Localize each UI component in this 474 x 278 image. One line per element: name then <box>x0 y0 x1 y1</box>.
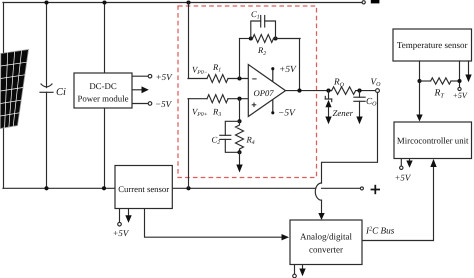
svg-text:−5V: −5V <box>278 108 296 118</box>
ground zener (arrow) <box>325 117 331 125</box>
ground microcontroller (arrow) <box>406 159 412 168</box>
wire R1 to op-amp inverting input <box>228 78 248 80</box>
junction dots top bus <box>44 0 190 190</box>
wire VO to ADC (down, left, hop, arrow) <box>322 93 378 184</box>
wire RT left stub <box>420 80 431 82</box>
node C2/R4 bottom junction <box>237 150 241 154</box>
node R2 left junction <box>249 36 253 40</box>
ground current sensor (arrow) <box>125 209 131 223</box>
solar panel PV module <box>0 50 28 129</box>
wire Vp0- to R1 <box>188 78 207 80</box>
wire feedback to R2 left <box>240 38 253 40</box>
power +5V pin microcontroller <box>400 159 403 170</box>
node zener junction <box>326 89 330 93</box>
svg-text:+5V: +5V <box>279 65 297 75</box>
svg-text:Power module: Power module <box>77 93 128 103</box>
node R2 right junction <box>273 36 277 40</box>
wire DC-DC top branch <box>104 3 106 74</box>
wire current sensor to ADC <box>145 209 282 238</box>
wire feedback down to output node <box>299 39 301 91</box>
wire temp sensor +5V pin <box>459 61 461 87</box>
node top bus end terminal <box>362 1 365 4</box>
wire to C2 top <box>225 121 239 135</box>
capacitor C2 <box>220 135 231 139</box>
node inverting input junction <box>237 76 241 80</box>
power +5V pin op-amp <box>271 67 274 82</box>
microcontroller box <box>394 122 472 159</box>
arrow DCDC power output <box>142 86 149 93</box>
svg-text:Current sensor: Current sensor <box>118 184 169 194</box>
wire DCDC -5V output <box>132 103 148 105</box>
resistor R4 <box>236 121 244 152</box>
node bottom bus end terminal <box>360 187 363 190</box>
ground temp sensor (arrow) <box>465 61 471 82</box>
wire capacitor Ci branch top <box>46 3 48 88</box>
terminal minus sign <box>371 0 380 3</box>
diode D1 zener <box>325 91 331 117</box>
svg-text:+5V: +5V <box>113 228 130 238</box>
power -5V pin op-amp <box>271 100 274 115</box>
node VO terminal <box>376 89 380 93</box>
wire temp sensor signal down <box>419 61 421 115</box>
resistor R1 <box>207 75 228 83</box>
node non-inverting input junction <box>237 97 241 101</box>
svg-text:−5V: −5V <box>155 99 173 109</box>
pin plus mark <box>252 103 257 108</box>
svg-text:Analog/digital: Analog/digital <box>300 231 352 241</box>
wire Vp0+ to R3 <box>188 98 207 100</box>
arrow into microcontroller bottom <box>430 159 436 167</box>
node RT right junction <box>457 79 461 83</box>
resistor R3 <box>207 95 228 103</box>
wire hop over bottom bus <box>315 183 321 200</box>
node junction Ci bottom <box>44 186 48 190</box>
wire op-amp output <box>286 90 332 92</box>
node output feedback junction <box>297 89 301 93</box>
svg-text:+5V: +5V <box>156 72 174 82</box>
wire capacitor Ci branch bottom <box>46 92 48 188</box>
wire feedback vertical from inverting input <box>239 39 241 79</box>
resistor R2 <box>253 35 274 43</box>
node junction Ci top <box>44 0 48 4</box>
ADC box <box>290 220 362 265</box>
wire Vp0- tap vertical <box>188 3 190 79</box>
svg-text:Ci: Ci <box>56 87 66 98</box>
current sensor box <box>115 166 172 209</box>
amplifier red dashed enclosure <box>178 6 317 178</box>
svg-text:Temperature sensor: Temperature sensor <box>397 40 468 50</box>
node DCDC +5V terminal <box>148 74 152 78</box>
label plus terminal <box>371 185 380 194</box>
arrow into ADC top <box>318 213 324 220</box>
arrow into microcontroller top <box>416 115 422 122</box>
wire DCDC +5V output <box>132 75 148 77</box>
wire bottom bus after hop <box>322 187 361 189</box>
wire DCDC power arrow output <box>132 89 142 91</box>
arrow into ADC left <box>282 234 290 240</box>
svg-text:+5V: +5V <box>395 172 412 182</box>
power +5V terminal RT <box>458 87 461 90</box>
wire RT right stub <box>451 80 460 82</box>
wire Vp0+ tap vertical <box>188 99 190 189</box>
wire R3 to op-amp non-inverting input <box>228 98 248 100</box>
DC-DC power module box <box>74 73 132 108</box>
node CO junction <box>357 89 361 93</box>
wire bottom bus left <box>3 187 115 189</box>
wire bottom bus right of current sensor <box>172 187 315 189</box>
power +5V pin current sensor <box>118 209 122 227</box>
wire C2 bottom <box>225 139 239 152</box>
temperature sensor box <box>393 29 472 61</box>
node DCDC -5V terminal <box>148 102 152 106</box>
node junction Vp0- tap <box>186 0 190 4</box>
pin minus mark <box>252 78 256 80</box>
capacitor CO <box>354 91 365 117</box>
node C2/R4 top junction <box>237 119 241 123</box>
wire C2 R4 drop <box>239 99 241 122</box>
svg-text:converter: converter <box>309 245 343 255</box>
svg-text:Mircocontroller unit: Mircocontroller unit <box>397 135 469 145</box>
wire ADC to microcontroller (I2C) <box>362 167 434 241</box>
svg-text:DC-DC: DC-DC <box>89 81 117 91</box>
wire hop to ADC arrow <box>321 200 323 213</box>
svg-text:+5V: +5V <box>453 91 468 100</box>
wire left vertical (panel branch) <box>3 3 5 189</box>
svg-text:Zener: Zener <box>333 108 354 118</box>
wire C1 left riser <box>251 21 261 39</box>
power +5V pin ADC <box>293 265 297 278</box>
resistor RT <box>431 78 451 84</box>
svg-text:OP07: OP07 <box>254 88 275 98</box>
wire C1 right riser <box>265 21 276 39</box>
node junction DCDC bottom <box>102 186 106 190</box>
op-amp U1 OP07 <box>248 65 285 117</box>
capacitor C1 <box>261 16 265 28</box>
capacitor Ci <box>40 84 53 92</box>
node RT left junction <box>417 79 421 83</box>
wire R2 right to output drop <box>274 38 301 40</box>
node junction DCDC top <box>102 0 106 4</box>
node junction Vp0+ tap <box>186 186 190 190</box>
wire DC-DC bottom branch <box>104 108 106 188</box>
resistor RO <box>332 87 356 95</box>
ground ADC (arrow) <box>299 265 305 277</box>
wire RO to VO <box>356 90 376 92</box>
ground CO (arrow) <box>356 117 362 125</box>
wire top bus (negative rail) <box>3 2 362 4</box>
wire to amplifier ground <box>239 152 241 165</box>
ground amplifier (arrow) <box>236 165 242 173</box>
